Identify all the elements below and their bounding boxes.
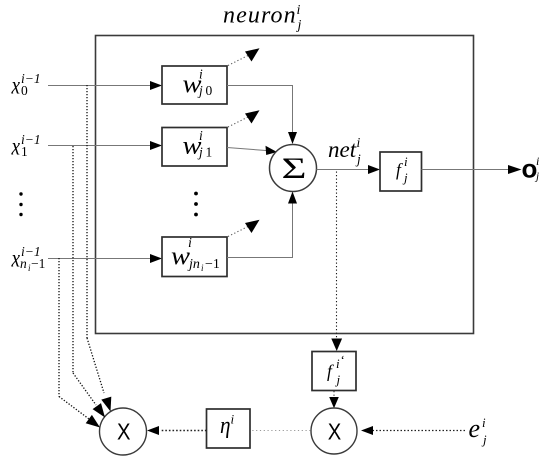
svg-text:i: i <box>297 3 301 18</box>
svg-text:n: n <box>20 256 27 271</box>
dotted feedback wire from xn <box>59 258 100 428</box>
dotted feedback wire from x0 <box>87 85 111 412</box>
wire sigma to f <box>317 165 381 174</box>
svg-text:x: x <box>11 246 20 273</box>
update arrow stub Wj0 <box>228 48 260 65</box>
svg-text:1: 1 <box>206 145 213 160</box>
update arrow stub Wjn <box>228 220 260 237</box>
svg-text:jn: jn <box>187 257 200 272</box>
wire xn to Wjn <box>48 254 162 263</box>
svg-text:o: o <box>522 154 538 184</box>
label xn input <box>11 244 46 273</box>
summation node sigma <box>270 145 317 192</box>
dotted wire net to fprime <box>331 172 342 352</box>
svg-text:x: x <box>11 134 20 161</box>
label x0 input <box>11 71 41 100</box>
multiplier node right <box>311 408 357 454</box>
svg-text:i: i <box>199 128 203 143</box>
svg-text:i: i <box>404 154 408 169</box>
svg-text:η: η <box>220 413 231 439</box>
dotted wire e to multiplier <box>361 426 465 435</box>
dotted wire eta to left multiplier <box>147 426 207 435</box>
multiplier node left <box>100 408 147 455</box>
svg-text:Σ: Σ <box>282 152 307 185</box>
svg-text:net: net <box>328 137 357 162</box>
svg-text:‘: ‘ <box>341 352 345 367</box>
svg-text:j: j <box>481 432 487 447</box>
dotted feedback wire from x1 <box>73 146 105 418</box>
label output o_j^i <box>522 154 540 184</box>
update arrow stub Wj1 <box>228 110 260 127</box>
svg-text:i: i <box>336 356 340 371</box>
activation box f_j^i <box>380 152 422 191</box>
svg-text:i: i <box>188 236 192 251</box>
learning rate box eta <box>207 409 251 448</box>
wire x0 to Wj0 <box>48 81 162 90</box>
wire f to output <box>422 165 522 174</box>
svg-text:X: X <box>117 419 131 445</box>
svg-text:neuron: neuron <box>223 3 297 29</box>
svg-text:X: X <box>328 419 342 445</box>
wire x1 to Wj1 <box>48 141 162 150</box>
svg-text:i: i <box>199 67 203 82</box>
svg-text:i: i <box>231 412 235 427</box>
wire Wjn to sigma <box>227 192 297 258</box>
neuron boundary box <box>96 36 474 334</box>
label x1 input <box>11 132 41 161</box>
svg-text:−1: −1 <box>31 256 45 271</box>
svg-text:0: 0 <box>206 83 213 98</box>
label e_j^i <box>469 414 488 447</box>
vertical ellipsis middle <box>194 192 198 217</box>
wire Wj0 to sigma <box>227 86 297 145</box>
svg-text:0: 0 <box>21 83 28 98</box>
label net_j^i <box>328 135 361 167</box>
svg-text:i: i <box>482 415 486 430</box>
svg-text:−1: −1 <box>205 257 220 272</box>
svg-text:i: i <box>357 135 361 150</box>
derivative box fprime <box>312 352 356 391</box>
weight box Wjn <box>162 236 227 277</box>
dotted wire multiplier to eta <box>251 430 311 432</box>
weight box Wj0 <box>162 66 227 104</box>
label neuron_j^i (title) <box>223 3 302 34</box>
wire Wj1 to sigma <box>227 146 277 155</box>
weight box Wj1 <box>162 128 227 167</box>
svg-text:e: e <box>469 414 481 443</box>
dotted wire fprime to multiplier <box>329 391 339 408</box>
vertical ellipsis left <box>19 192 22 216</box>
svg-text:x: x <box>11 73 20 100</box>
svg-text:1: 1 <box>21 144 28 159</box>
svg-text:i: i <box>536 154 539 168</box>
